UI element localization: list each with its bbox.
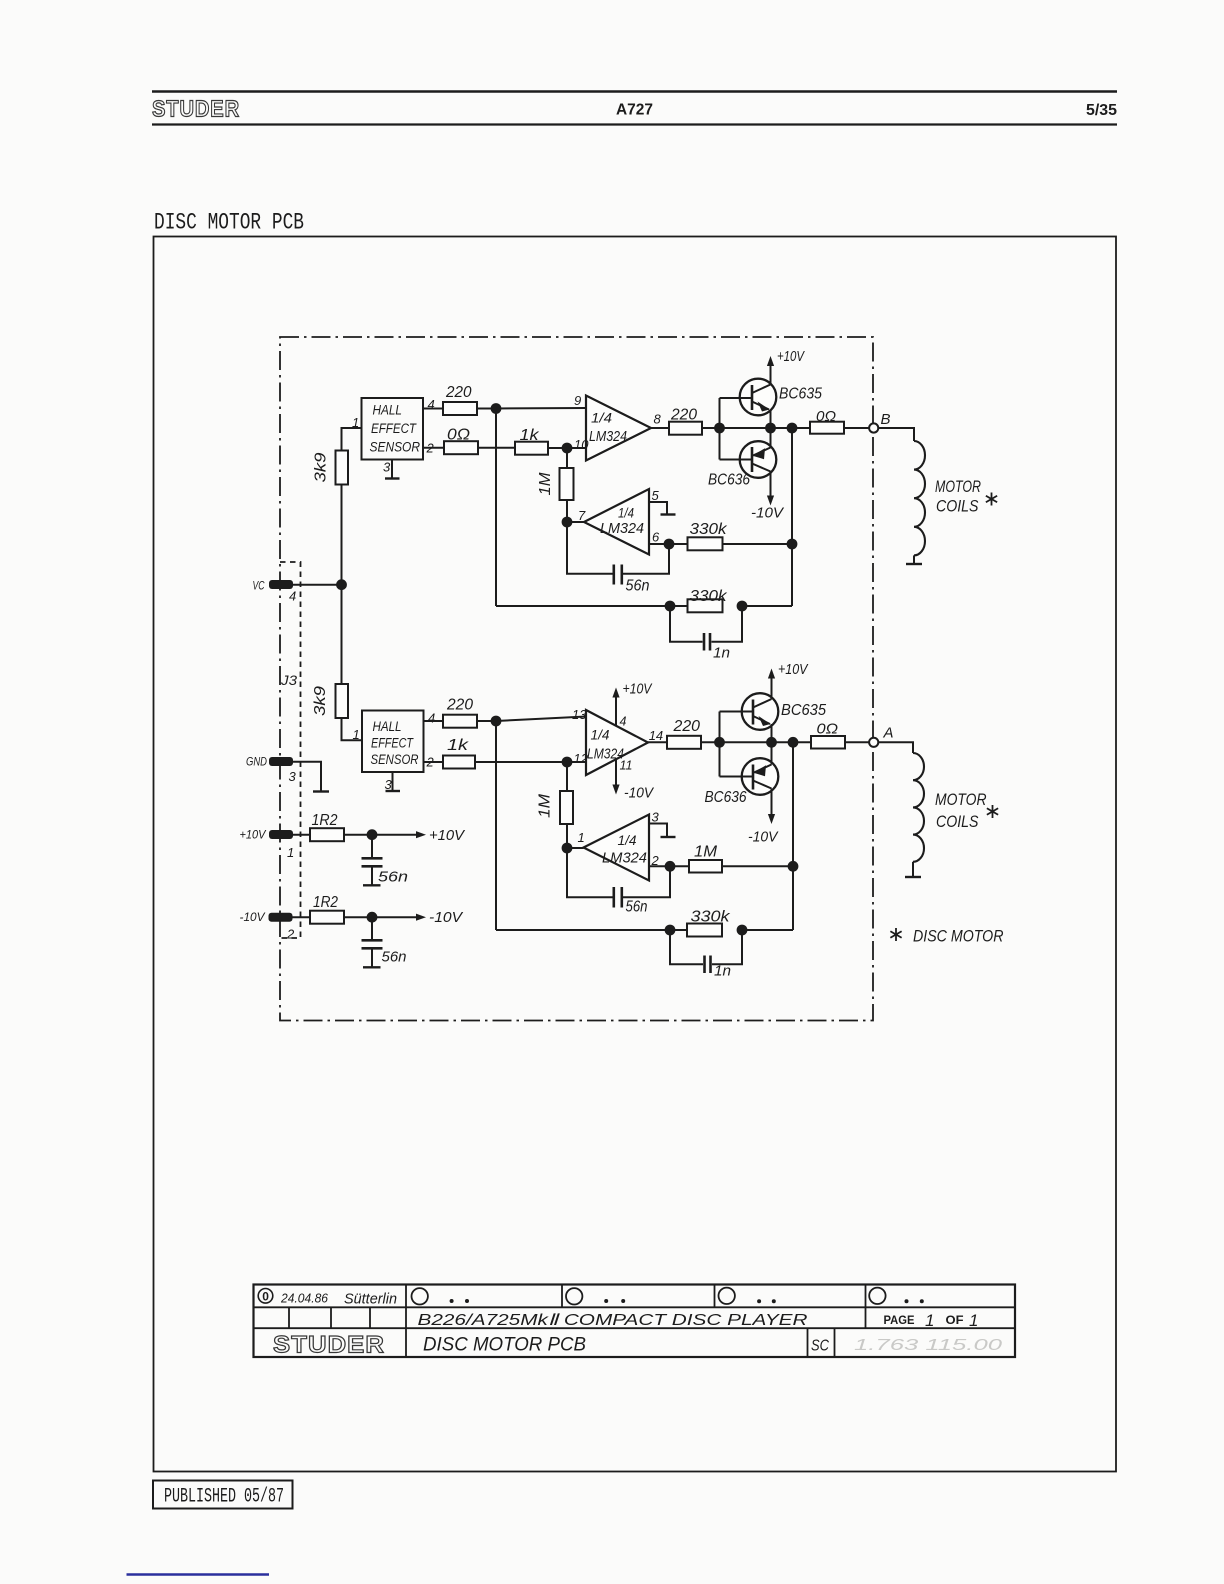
capacitor 56n (top channel) [614,565,650,595]
svg-text:BC636: BC636 [708,472,750,489]
pin 5 ground stub (top) [649,502,676,515]
part number (faint) [854,1337,1002,1354]
svg-text:1: 1 [287,845,294,860]
svg-text:1R2: 1R2 [313,894,338,911]
wire BC636 collector to -10V arrow (bottom) [771,789,773,816]
-10V arrow (bottom transistors) [748,814,779,846]
node 330k left (bottom) [665,925,676,936]
svg-text:LM324: LM324 [600,521,644,537]
svg-text:+10V: +10V [777,349,805,365]
motor coil (bottom) [905,753,924,877]
svg-text:DISC MOTOR PCB: DISC MOTOR PCB [423,1335,586,1356]
svg-text:GND: GND [246,755,267,769]
wire R330k to feedback line [723,543,793,545]
svg-text:LM324: LM324 [587,747,624,763]
svg-text:220: 220 [670,407,697,424]
pin 3 ground stub (bottom) [649,824,676,838]
+10V arrow (op-amp U2A) [612,682,652,727]
wire node to op-amp pin 13 [496,717,586,722]
resistor 3k9 (top channel) [313,451,349,485]
wire pin10 node to R1M [566,448,568,468]
wire output node to BC636 emitter (bottom) [771,742,773,764]
title block row dividers [254,1307,1016,1328]
node op-amp pin6 junction [664,539,675,550]
svg-text:12: 12 [574,751,589,766]
resistor 330k (top, feedback) [688,588,728,612]
wire feedback row to R330k (bottom) [496,929,687,931]
drawing title DISC MOTOR PCB [154,210,304,237]
wire -10V pin to R1R2 [293,916,311,918]
node output feedback tap (bottom) [788,737,799,748]
svg-text:-10V: -10V [240,910,266,924]
header top rule [152,90,1117,92]
node op-amp pin 7 junction [562,517,573,528]
wire VC pin to node [293,584,342,586]
revision 0 entry [258,1289,397,1308]
svg-text:COILS: COILS [936,812,979,831]
svg-text:1/4: 1/4 [591,411,612,426]
svg-text:+10V: +10V [623,682,653,698]
svg-text:8: 8 [654,412,662,427]
wire R0 to node B [844,427,869,429]
node top input junction [491,403,502,414]
svg-text:COILS: COILS [936,497,979,516]
wire node A to motor coil [878,742,913,753]
svg-text:+10V: +10V [429,827,466,844]
svg-text:2: 2 [286,927,295,942]
wire R1M to feedback line (bottom) [722,865,793,867]
svg-text:MOTOR: MOTOR [935,790,987,809]
wire pin12 node to R1M (bottom) [566,762,568,791]
wire +10V pin to R1R2 [293,834,310,836]
SC cell [811,1338,830,1355]
resistor 3k9 (bottom channel) [312,684,348,718]
svg-text:B: B [881,411,891,428]
revision circle 1 [412,1288,470,1304]
wire BC636 collector to -10V arrow (top) [770,472,772,498]
svg-text:1: 1 [925,1311,934,1330]
revision circle 4 [869,1288,924,1304]
svg-text:14: 14 [649,728,663,743]
node 330k right (bottom) [737,925,748,936]
svg-text:0Ω: 0Ω [816,408,836,425]
wire 330k to output feedback line (bottom) [742,929,793,931]
svg-text:4: 4 [428,397,435,412]
svg-text:1/4: 1/4 [591,728,610,743]
resistor 330k (bottom, feedback) [687,909,731,937]
svg-text:9: 9 [574,393,581,408]
svg-text:A727: A727 [616,102,653,119]
svg-text:1/4: 1/4 [618,833,637,848]
title DISC MOTOR PCB (title block) [423,1335,586,1356]
svg-text:SENSOR: SENSOR [371,752,419,767]
wire hall pin 4 to R220 [423,397,443,412]
node -10V rail junction [367,912,378,923]
svg-text:Sütterlin: Sütterlin [344,1292,397,1308]
resistor 1k (bottom channel) [443,737,475,769]
node VC junction [336,579,347,590]
wire R3k9 to hall sensor pin 1 (bottom) [342,718,363,742]
resistor 1M (bottom output) [689,844,722,873]
capacitor 56n (-10V rail) [362,922,407,967]
svg-text:DISC MOTOR: DISC MOTOR [913,927,1004,946]
op-amp U2A 1/4 LM324 (pins 13,12,14) [572,707,663,775]
svg-text:OF: OF [946,1315,964,1327]
resistor 1R2 (-10V rail) [310,894,344,924]
svg-text:MOTOR: MOTOR [935,477,981,496]
-10V arrow (top transistors) [751,496,784,522]
label DISC MOTOR footnote [890,927,1003,946]
svg-text:1M: 1M [537,794,554,818]
revision circle 2 [566,1288,625,1304]
wire output feedback vertical (bottom) [792,742,794,930]
wire feedback vertical from input node (bottom) [495,721,497,930]
svg-text:56n: 56n [626,578,650,595]
transistor Q1 BC635 (top) [720,379,823,416]
wire output rail (bottom) [720,741,812,743]
published text [164,1486,284,1509]
transistor Q3 BC635 (bottom) [720,693,827,730]
wire R220 to node [477,408,496,410]
resistor 1k (top channel) [515,427,548,455]
svg-text:5/35: 5/35 [1086,102,1117,119]
wire R0 to R1k [478,447,515,449]
published box [153,1481,293,1509]
svg-text:-10V: -10V [748,830,779,846]
node feedback tap (bottom 1M) [788,861,799,872]
wire 56n feedback path [567,522,669,574]
wire R1R2 to -10V arrow [344,916,417,918]
revision circle 3 [719,1288,776,1304]
transistor Q2 BC636 (top) [708,441,776,488]
capacitor 56n (+10V rail) [362,840,409,886]
node op-amp pin2 junction [665,861,676,872]
wire hall pin 2 to R0 [423,441,444,456]
resistor 0R (top output) [810,408,844,434]
svg-text:STUDER: STUDER [152,96,240,122]
svg-text:SENSOR: SENSOR [370,440,421,455]
wire op-amp U1B output to R330k [649,543,688,545]
resistor 1R2 (+10V rail) [310,812,344,841]
node output feedback tap (top) [787,423,798,434]
STUDER title block logo [273,1332,385,1359]
svg-text:3: 3 [652,810,660,825]
svg-text:PAGE: PAGE [884,1315,915,1327]
node emitter junction (bottom) [766,737,777,748]
svg-text:1M: 1M [537,472,554,495]
svg-text:3: 3 [383,460,391,475]
wire R220 to base node (bottom) [701,741,720,743]
wire R220 to base node [702,427,720,429]
svg-text:10: 10 [574,437,589,452]
svg-text:EFFECT: EFFECT [371,421,418,436]
wire output rail (top) [720,427,811,429]
op-amp U1B 1/4 LM324 (pins 5,7,6) [578,488,660,555]
hall sensor pin 3 ground stub (bottom) [385,772,401,792]
svg-text:LM324: LM324 [602,851,647,867]
svg-text:3k9: 3k9 [312,686,329,716]
svg-text:1k: 1k [447,737,470,754]
wire feedback vertical from input node (top) [495,409,497,607]
node feedback tap (top 330k) [787,539,798,550]
wire VC node up to R3k9 [341,485,343,585]
wire base tee (top) [720,398,753,460]
capacitor 56n (bottom channel) [614,887,648,916]
svg-text:220: 220 [445,384,472,401]
node A [869,725,893,747]
wire pin 7 to op-amp [567,521,584,523]
svg-text:0Ω: 0Ω [447,427,470,444]
blue footer line [127,1573,270,1576]
svg-text:HALL: HALL [373,719,402,734]
wire BC635 collector to +10V arrow (top) [770,366,772,385]
wire 56n feedback path (bottom) [567,848,670,897]
wire output node to BC636 emitter (top) [770,428,772,448]
svg-text:1.763 115.00: 1.763 115.00 [854,1337,1002,1354]
svg-text:B226/A725MkⅡ COMPACT DISC PLAY: B226/A725MkⅡ COMPACT DISC PLAYER [418,1312,809,1329]
PCB boundary dash-dot box [280,337,873,1021]
resistor 220 (top output stage) [669,407,702,435]
label MOTOR COILS (top) [935,477,997,516]
wire op-amp U1A output to R220 [651,427,669,429]
resistor 1M (bottom channel feedback) [537,791,574,824]
hall effect sensor (top channel) [362,398,424,460]
wire VC node down to R3k9 (bottom) [341,585,343,684]
svg-text:7: 7 [578,508,586,523]
svg-text:11: 11 [620,759,633,773]
svg-text:1: 1 [578,830,585,845]
svg-text:-10V: -10V [624,786,654,802]
resistor 220 (bottom output stage) [667,718,701,749]
connector pin -10V (pin 2) [240,910,296,942]
svg-text:EFFECT: EFFECT [371,736,414,751]
svg-text:3: 3 [289,769,297,784]
svg-text:-10V: -10V [429,909,464,926]
wire 1n parallel path (top) [670,606,742,642]
wire pin 1 to op-amp (bottom) [567,847,584,849]
svg-text:3: 3 [385,777,393,792]
svg-text:4: 4 [620,715,627,729]
transistor Q4 BC636 (bottom) [705,758,779,806]
wire R3k9 to hall sensor pin 1 [342,415,362,451]
wire R1k to op-amp pin 12 [475,761,586,763]
wire output feedback vertical (top) [791,428,793,606]
svg-text:1/4: 1/4 [618,506,634,521]
connector pin GND (pin 3) [246,755,297,785]
capacitor 1n (top) [704,633,730,662]
connector J3 dashed outline [280,562,301,938]
label MOTOR COILS (bottom) [935,790,998,831]
svg-text:A: A [883,725,894,742]
svg-text:J3: J3 [280,672,297,688]
wire R1M to pin 1 node [566,824,568,848]
svg-text:5: 5 [652,488,660,503]
svg-text:1n: 1n [713,645,730,662]
node 330k right (top) [737,601,748,612]
wire GND pin to ground stub [293,762,321,791]
svg-text:1: 1 [352,415,359,430]
node bottom input junction [491,716,502,727]
svg-text:24.04.86: 24.04.86 [280,1291,329,1306]
wire op-amp U2B output to R1M [649,865,689,867]
svg-text:VC: VC [253,579,265,593]
wire node B to motor coil [878,428,914,441]
header title A727 [616,102,653,119]
motor coil (top) [906,441,925,564]
+10V arrow (bottom transistors) [768,662,809,679]
resistor 1M (top channel feedback) [537,468,574,500]
+10V rail arrow [416,827,466,844]
resistor 330k (top, first) [688,521,728,550]
svg-text:56n: 56n [382,949,407,966]
svg-text:6: 6 [652,530,660,545]
ground symbol GND stub [313,790,329,792]
svg-text:0: 0 [262,1290,269,1304]
svg-text:330k: 330k [691,909,731,926]
node transistor base junction (top) [714,423,725,434]
wire R1R2 to +10V arrow [344,834,417,836]
hall sensor pin 3 ground stub (top) [383,460,400,479]
node B [869,411,890,433]
node 330k left (top) [665,601,676,612]
svg-text:56n: 56n [378,869,408,886]
op-amp U2B 1/4 LM324 (pins 1,3,2) [578,810,660,881]
svg-text:330k: 330k [690,588,728,605]
svg-text:+10V: +10V [778,662,809,678]
svg-text:1k: 1k [520,427,540,444]
title block outer frame [254,1285,1016,1358]
node op-amp pin 1 junction [562,843,573,854]
svg-text:1: 1 [969,1311,978,1330]
svg-text:SC: SC [811,1338,830,1355]
svg-text:56n: 56n [626,899,648,916]
node emitter junction (top) [765,423,776,434]
header bottom rule [152,123,1117,125]
svg-text:13: 13 [572,707,587,722]
header page number 5/35 [1086,102,1117,119]
svg-text:STUDER: STUDER [273,1332,385,1359]
svg-text:2: 2 [426,441,435,456]
svg-text:LM324: LM324 [589,429,627,445]
resistor 220 (bottom hall output) [443,697,477,728]
svg-text:PUBLISHED 05/87: PUBLISHED 05/87 [164,1486,284,1509]
wire BC635 emitter to output node (top) [770,410,772,429]
node transistor base junction (bottom) [714,737,725,748]
svg-text:220: 220 [446,697,473,714]
wire R1k to op-amp pin 10 [548,447,586,449]
wire op-amp U2A output to R220 [648,741,667,743]
svg-text:BC635: BC635 [781,702,826,719]
STUDER header logo [152,96,240,122]
page 1 of 1 [884,1311,979,1330]
wire hall pin 2 to R1k (bottom) [424,755,444,770]
node op-amp pin 12 junction [562,757,573,768]
title block column dividers [289,1285,866,1358]
wire hall pin 4 to R220 (bottom) [424,711,444,726]
wire 1n parallel path (bottom) [670,930,742,964]
svg-text:1: 1 [353,727,360,742]
svg-text:4: 4 [289,589,296,604]
connector pin +10V (pin 1) [240,828,295,861]
wire node to op-amp pin 9 [496,407,586,410]
resistor 0R (bottom output) [811,721,845,749]
-10V rail arrow [416,909,464,926]
svg-text:DISC MOTOR PCB: DISC MOTOR PCB [154,210,304,237]
svg-text:4: 4 [428,711,435,726]
resistor 0R (top hall pin2) [444,427,478,455]
title B226/A725MkII COMPACT DISC PLAYER [418,1312,809,1329]
capacitor 1n (bottom) [705,956,732,980]
svg-text:2: 2 [426,755,435,770]
svg-text:-10V: -10V [751,506,784,522]
svg-text:220: 220 [672,718,700,735]
drawing frame [154,237,1117,1472]
svg-text:3k9: 3k9 [313,452,330,482]
wire R1M to pin 7 node [566,500,568,522]
wire base tee (bottom) [720,712,754,777]
wire BC635 collector to +10V arrow (bottom) [771,679,773,700]
svg-text:330k: 330k [690,521,728,538]
svg-text:+10V: +10V [240,828,267,842]
svg-text:1M: 1M [694,844,717,861]
resistor 220 (top hall output) [443,384,477,415]
wire feedback row to R330k (top) [496,605,688,607]
svg-text:1R2: 1R2 [312,812,338,829]
svg-text:BC636: BC636 [705,789,747,806]
wire R0 to node A [845,741,869,743]
svg-text:HALL: HALL [373,403,403,418]
svg-text:0Ω: 0Ω [817,721,839,738]
op-amp U1A 1/4 LM324 (pins 9,10,8) [574,393,662,461]
node +10V rail junction [367,829,378,840]
svg-text:BC635: BC635 [779,386,822,403]
wire 330k to output feedback line (top) [742,605,792,607]
+10V arrow (top transistors) [767,349,805,366]
label J3 [280,672,297,688]
wire BC635 emitter to output node (bottom) [771,724,773,742]
hall effect sensor (bottom channel) [362,711,424,773]
node op-amp pin 10 junction [562,443,573,454]
wire R220 to node (bottom) [477,720,496,722]
connector pin VC (pin 4) [253,579,297,604]
-10V arrow (op-amp U2A) [612,759,654,802]
